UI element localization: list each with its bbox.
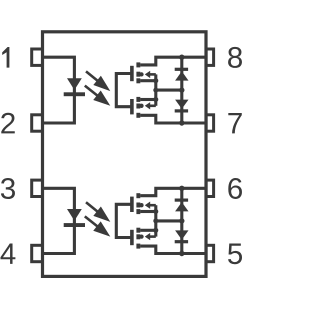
package outline (DIP-8 body) xyxy=(43,32,207,277)
body diode D2B cathode bar xyxy=(175,240,188,243)
body diode D1A triangle (up) xyxy=(175,71,188,80)
body diode D1B cathode bar xyxy=(175,109,188,112)
Q1A body arrow (pointing to channel) xyxy=(145,71,156,78)
Q1B body terminal dot xyxy=(139,104,143,108)
pin 2 label xyxy=(1,113,14,134)
MOSFET Q1B gate electrode bar xyxy=(130,99,134,114)
junction dots on common source node CH1 xyxy=(153,78,158,102)
body diode D2A cathode bar xyxy=(175,199,188,202)
input loop wire: pin 1 anode / pin 2 cathode (CH1) xyxy=(43,57,74,123)
wire: Q1B drain lead and rail to pin 7 xyxy=(140,115,206,123)
light arrow 2b xyxy=(85,216,111,236)
pin 3 label xyxy=(1,178,15,199)
Q2A source lead xyxy=(140,210,156,213)
Q1B source lead xyxy=(140,98,156,101)
pin 3 square xyxy=(32,180,43,196)
body diode D1A cathode bar xyxy=(175,68,188,71)
wire: Q2A drain lead and rail to pin 6 xyxy=(140,188,206,195)
gate wire bracket CH1 xyxy=(116,74,130,107)
pin 6 square xyxy=(206,180,214,196)
pin 1 square xyxy=(32,49,43,65)
pin 7 square xyxy=(206,115,214,131)
wire: common node to body-diode midpoint CH1 xyxy=(156,89,182,92)
wire: Q1A drain lead and rail to pin 8 xyxy=(140,57,206,65)
MOSFET Q2B channel bar segments xyxy=(136,228,140,249)
pin 1 label xyxy=(2,47,9,68)
Q2B body arrow (pointing to channel) xyxy=(145,233,156,240)
pin 8 label xyxy=(228,47,242,68)
common source/body vertical wire CH1 xyxy=(154,74,157,105)
body-diode column wire CH1 xyxy=(180,57,183,123)
pin 4 square xyxy=(32,245,43,261)
common source/body vertical wire CH2 xyxy=(154,205,157,236)
junction dots on diode column CH1 xyxy=(179,55,184,126)
input loop wire: pin 3 anode / pin 4 cathode (CH2) xyxy=(43,188,74,253)
body diode D2B triangle (down) xyxy=(175,230,188,239)
pin 6 label xyxy=(228,178,242,199)
body diode D1B triangle (down) xyxy=(175,100,188,109)
Q2A body terminal dot xyxy=(139,203,143,207)
junction dots on common source node CH2 xyxy=(153,209,158,233)
Q1A source lead xyxy=(140,79,156,82)
pin 5 label xyxy=(228,244,242,265)
pin 4 label xyxy=(0,244,15,264)
junction dots on diode column CH2 xyxy=(179,186,184,257)
MOSFET Q2B gate electrode bar xyxy=(130,230,134,245)
body-diode column wire CH2 xyxy=(180,188,183,253)
pin 8 square xyxy=(206,49,214,65)
Q1A body terminal dot xyxy=(139,72,143,76)
pin 2 square xyxy=(32,115,43,131)
LED2 triangle (anode) xyxy=(67,209,82,221)
MOSFET Q1B channel bar segments xyxy=(136,97,140,118)
Q2A body arrow (pointing to channel) xyxy=(145,202,156,209)
Q2B source lead xyxy=(140,229,156,232)
wire: Q2B drain lead and rail to pin 5 xyxy=(140,246,206,253)
gate wire bracket CH2 xyxy=(116,204,130,237)
light arrow 1a xyxy=(86,71,110,91)
LED1 triangle (anode) xyxy=(67,78,82,90)
body diode D2A triangle (up) xyxy=(175,202,188,211)
MOSFET Q1A gate electrode bar xyxy=(130,66,134,81)
LED2 cathode bar xyxy=(64,223,85,227)
pin 7 label xyxy=(228,113,241,133)
LED1 cathode bar xyxy=(64,92,85,96)
wire: common node to body-diode midpoint CH2 xyxy=(156,219,182,222)
pin 5 square xyxy=(206,245,214,261)
Q1B body arrow (pointing to channel) xyxy=(145,102,156,109)
light arrow 1b xyxy=(85,86,111,106)
MOSFET Q2A gate electrode bar xyxy=(130,197,134,212)
MOSFET Q1A channel bar segments xyxy=(136,62,140,83)
light arrow 2a xyxy=(86,202,110,222)
Q2B body terminal dot xyxy=(139,234,143,238)
MOSFET Q2A channel bar segments xyxy=(136,193,140,214)
